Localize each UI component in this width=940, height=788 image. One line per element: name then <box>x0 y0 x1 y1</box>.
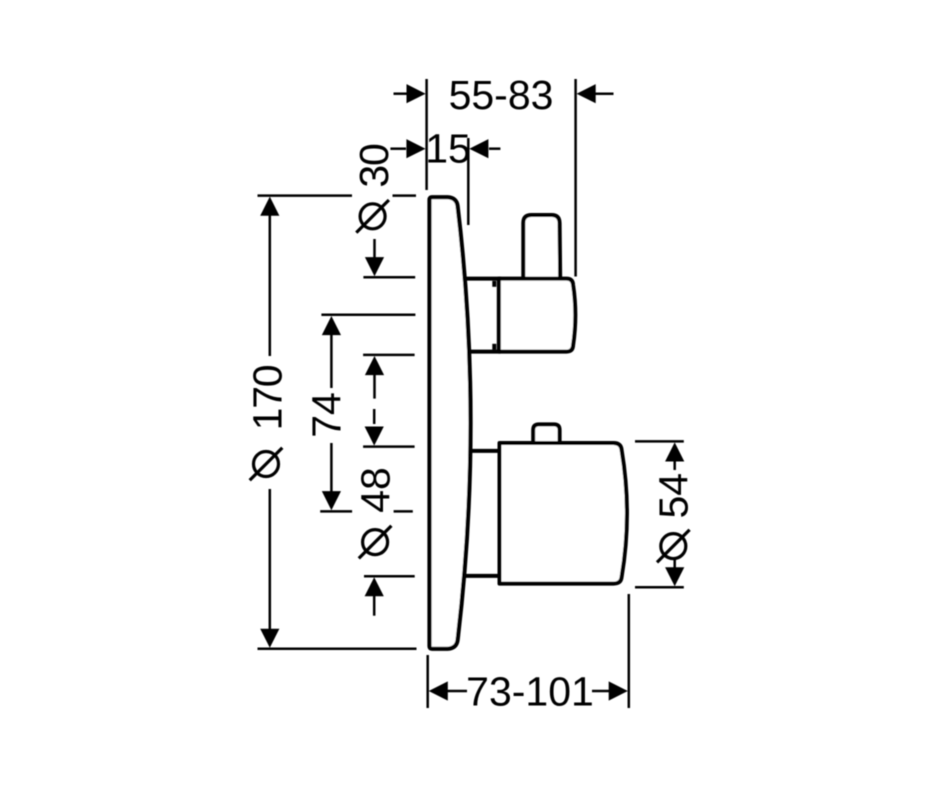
svg-text:54: 54 <box>651 473 697 519</box>
svg-text:15: 15 <box>425 125 471 171</box>
svg-text:55-83: 55-83 <box>449 72 554 118</box>
svg-text:73-101: 73-101 <box>466 669 594 715</box>
svg-text:170: 170 <box>244 365 290 430</box>
svg-text:30: 30 <box>351 144 397 188</box>
svg-text:48: 48 <box>353 467 399 513</box>
svg-text:74: 74 <box>303 392 349 438</box>
